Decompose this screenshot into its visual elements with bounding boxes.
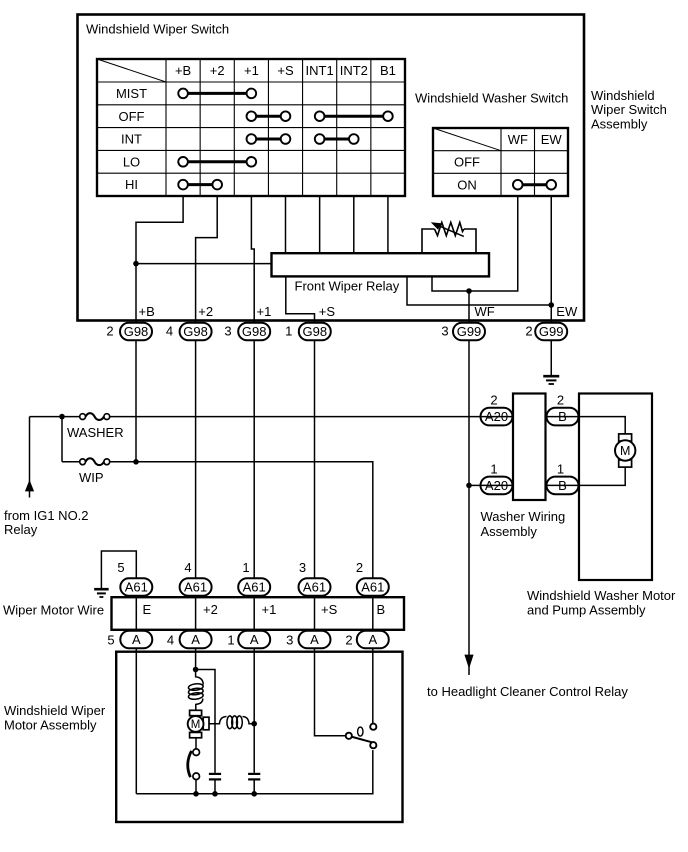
svg-text:1: 1 <box>557 461 564 476</box>
svg-text:Windshield Washer Switch: Windshield Washer Switch <box>415 91 568 106</box>
svg-text:G98: G98 <box>242 324 267 339</box>
wiper motor wire terminal names <box>143 602 386 617</box>
svg-text:1: 1 <box>242 560 249 575</box>
WASHER fuse <box>80 414 86 420</box>
connector A pin5 <box>120 631 152 649</box>
wire +2 branch to capacitor <box>196 670 215 794</box>
svg-text:+2: +2 <box>210 63 225 78</box>
HI contact +B to +2 <box>183 183 217 186</box>
windshield wiper switch contact table <box>97 59 405 196</box>
svg-text:3: 3 <box>441 324 448 339</box>
svg-text:G98: G98 <box>303 324 328 339</box>
svg-text:4: 4 <box>167 633 174 648</box>
ON contact WF to EW <box>518 183 552 186</box>
svg-text:A61: A61 <box>125 580 148 595</box>
svg-text:G98: G98 <box>124 324 149 339</box>
svg-text:to Headlight Cleaner Control R: to Headlight Cleaner Control Relay <box>427 684 628 699</box>
svg-text:+2: +2 <box>203 602 218 617</box>
rail junction 1 <box>193 791 199 797</box>
capacitor C2 <box>248 774 260 780</box>
connector A61 pin5 <box>120 578 152 596</box>
rail junction 3 <box>251 791 257 797</box>
svg-text:from IG1 NO.2: from IG1 NO.2 <box>4 508 89 523</box>
capacitor C1 <box>209 774 221 780</box>
svg-text:A61: A61 <box>303 580 326 595</box>
wire WF from washer switch to relay <box>432 196 518 291</box>
svg-text:Motor Assembly: Motor Assembly <box>4 717 97 732</box>
wiper motor armature coil (vertical inductor) <box>188 670 203 711</box>
svg-text:A20: A20 <box>485 478 508 493</box>
junction washer/wip feed <box>59 414 65 420</box>
label: Windshield Washer Motor and Pump Assembly <box>527 588 676 617</box>
svg-text:HI: HI <box>125 177 138 192</box>
svg-text:3: 3 <box>224 324 231 339</box>
INT contact INT1 to INT2 <box>320 138 354 141</box>
svg-text:1: 1 <box>490 461 497 476</box>
svg-text:G99: G99 <box>457 324 482 339</box>
pin numbers G98/G99 row <box>106 324 532 339</box>
svg-text:+1: +1 <box>262 602 277 617</box>
label: Windshield Wiper Switch Assembly <box>591 88 667 132</box>
MIST contact +B to +1 <box>183 92 251 95</box>
svg-text:Wiper Motor Wire: Wiper Motor Wire <box>3 603 104 618</box>
svg-text:A20: A20 <box>485 409 508 424</box>
motor ground rail <box>136 750 372 794</box>
svg-text:INT: INT <box>121 132 142 147</box>
LO contact +B to +1 <box>183 160 251 163</box>
connector A pin1 <box>238 631 270 649</box>
wiper park switch <box>346 724 377 749</box>
windshield washer switch contact table <box>433 128 568 196</box>
connector G98 pin1 <box>299 323 331 341</box>
WASHER fuse feed wire <box>30 416 484 418</box>
connector A61 pin4 <box>180 578 212 596</box>
connector A pin2 <box>357 631 389 649</box>
arrow to headlight cleaner control relay <box>464 655 473 669</box>
svg-text:3: 3 <box>299 560 306 575</box>
svg-text:G98: G98 <box>183 324 208 339</box>
rail junction 2 <box>212 791 218 797</box>
connector A20 pin1 <box>481 477 513 495</box>
svg-text:M: M <box>620 444 630 458</box>
svg-text:A: A <box>132 632 141 647</box>
windshield wiper switch assembly box <box>78 15 585 321</box>
junction coil/+1 <box>251 721 257 727</box>
wire +2 column down to wiper motor <box>196 196 218 670</box>
wire B pin2 of washer motor <box>579 417 626 434</box>
svg-text:3: 3 <box>286 633 293 648</box>
svg-text:+S: +S <box>277 63 294 78</box>
svg-text:WF: WF <box>508 132 528 147</box>
washer wiring assembly connector block <box>513 394 546 501</box>
wire B1 into relay <box>387 196 389 253</box>
connector A61 pin1 <box>238 578 270 596</box>
svg-text:1: 1 <box>285 324 292 339</box>
svg-text:OFF: OFF <box>454 155 480 170</box>
link wire washer row to wip row <box>61 417 63 462</box>
svg-text:LO: LO <box>123 154 140 169</box>
svg-text:B: B <box>377 602 386 617</box>
pin numbers A row <box>107 633 352 648</box>
wire to A20 pin1 <box>469 484 483 486</box>
svg-text:WASHER: WASHER <box>67 425 124 440</box>
wire +B to relay left <box>136 263 272 265</box>
svg-text:EW: EW <box>541 132 563 147</box>
svg-text:+B: +B <box>139 304 155 319</box>
ground at wiper motor E pin <box>94 588 109 591</box>
svg-text:5: 5 <box>117 560 124 575</box>
pin numbers A20/B ovals <box>490 392 564 476</box>
OFF contact +1 to +S <box>251 115 285 118</box>
connector A20 pin2 <box>481 408 513 426</box>
svg-text:ON: ON <box>457 177 477 192</box>
svg-text:Windshield Washer Motor: Windshield Washer Motor <box>527 588 676 603</box>
svg-text:2: 2 <box>356 560 363 575</box>
windshield washer motor and pump assembly box <box>579 394 652 581</box>
svg-text:B1: B1 <box>380 63 396 78</box>
svg-text:Wiper Switch: Wiper Switch <box>591 102 667 117</box>
svg-text:Windshield: Windshield <box>591 88 655 103</box>
svg-text:2: 2 <box>106 324 113 339</box>
front wiper relay box <box>272 253 490 276</box>
svg-text:INT1: INT1 <box>306 63 334 78</box>
junction EW <box>548 302 554 308</box>
wire B pin1 of washer motor <box>579 467 626 485</box>
connector A pin4 <box>180 631 212 649</box>
svg-text:+S: +S <box>319 304 336 319</box>
windshield wiper motor assembly box <box>116 652 402 822</box>
svg-text:A: A <box>250 632 259 647</box>
wire +S column into relay <box>285 196 287 253</box>
svg-text:A: A <box>310 632 319 647</box>
connector G99 pin3 <box>453 323 485 341</box>
svg-text:Washer Wiring: Washer Wiring <box>481 509 566 524</box>
wire INT2 into relay <box>353 196 355 253</box>
svg-text:2: 2 <box>525 324 532 339</box>
connector G99 pin2 <box>535 323 567 341</box>
svg-text:4: 4 <box>184 560 191 575</box>
feed from IG1 NO.2 relay with up arrow <box>29 417 31 498</box>
connector A61 pin2 <box>357 578 389 596</box>
ground below G99 pin2 <box>543 375 559 378</box>
pin numbers A61 row <box>117 560 363 575</box>
svg-text:and Pump Assembly: and Pump Assembly <box>527 602 646 617</box>
choke coil (horizontal inductor) <box>209 716 254 729</box>
svg-text:A61: A61 <box>361 580 384 595</box>
svg-text:MIST: MIST <box>116 86 147 101</box>
svg-text:+1: +1 <box>257 304 272 319</box>
OFF contact INT1 to B1 <box>320 115 388 118</box>
svg-text:E: E <box>143 602 152 617</box>
junction WIP/+B <box>133 459 139 465</box>
svg-text:Assembly: Assembly <box>481 524 538 539</box>
svg-text:A: A <box>191 632 200 647</box>
svg-text:INT2: INT2 <box>340 63 368 78</box>
junction WF <box>466 288 472 294</box>
svg-text:5: 5 <box>107 633 114 648</box>
svg-text:EW: EW <box>556 304 578 319</box>
variable resistor on front wiper relay <box>422 222 476 253</box>
svg-text:A61: A61 <box>243 580 266 595</box>
INT contact +1 to +S <box>251 138 285 141</box>
connector B pin1 <box>547 477 579 495</box>
wire EW from relay <box>407 276 551 305</box>
connector A pin3 <box>299 631 331 649</box>
connector G98 pin4 <box>180 323 212 341</box>
wire E pin with ground hook <box>101 551 136 794</box>
svg-text:B: B <box>558 478 567 493</box>
label: Washer Wiring Assembly <box>481 509 566 539</box>
wire EW column down to ground <box>550 196 552 376</box>
svg-text:2: 2 <box>557 392 564 407</box>
connector B pin2 <box>547 408 579 426</box>
svg-text:2: 2 <box>345 633 352 648</box>
wire +1 column down to capacitor <box>251 196 254 794</box>
svg-text:A: A <box>368 632 377 647</box>
svg-text:Windshield Wiper Switch: Windshield Wiper Switch <box>86 21 229 36</box>
svg-text:Assembly: Assembly <box>591 117 648 132</box>
svg-text:Front Wiper Relay: Front Wiper Relay <box>295 279 400 294</box>
svg-text:1: 1 <box>227 633 234 648</box>
WIP fuse <box>80 459 86 465</box>
thermal circuit breaker <box>188 738 200 794</box>
washer pump motor M <box>615 434 635 467</box>
pin name labels at assembly box bottom <box>139 304 578 319</box>
wiper motor M <box>188 710 209 738</box>
svg-text:2: 2 <box>490 392 497 407</box>
svg-text:+S: +S <box>321 602 338 617</box>
junction +B/relay <box>133 261 139 267</box>
wiper motor wire box <box>112 597 405 630</box>
junction +2 branch <box>193 667 199 673</box>
svg-text:Windshield Wiper: Windshield Wiper <box>4 703 106 718</box>
wire +S from relay down to park switch <box>286 276 346 735</box>
svg-text:WF: WF <box>475 304 495 319</box>
label: Windshield Wiper Motor Assembly <box>4 703 106 733</box>
WIP fuse row wire to B column <box>62 462 373 724</box>
svg-text:A61: A61 <box>184 580 207 595</box>
label: from IG1 NO.2 Relay <box>4 508 89 537</box>
svg-text:Relay: Relay <box>4 522 38 537</box>
wire +B column from switch table <box>136 196 183 462</box>
connector G98 pin3 <box>238 323 270 341</box>
svg-text:M: M <box>191 719 201 731</box>
wire INT1 into relay <box>319 196 321 253</box>
connector A61 pin3 <box>299 578 331 596</box>
wire WF pin down to headlight cleaner relay <box>468 291 470 675</box>
svg-text:+B: +B <box>175 63 191 78</box>
svg-text:+2: +2 <box>198 304 213 319</box>
connector G98 pin2 <box>120 323 152 341</box>
svg-text:G99: G99 <box>539 324 564 339</box>
svg-text:OFF: OFF <box>119 109 145 124</box>
svg-text:B: B <box>558 409 567 424</box>
svg-text:+1: +1 <box>244 63 259 78</box>
svg-text:WIP: WIP <box>79 470 104 485</box>
junction WF/A20 pin1 <box>466 483 472 489</box>
svg-text:4: 4 <box>166 324 173 339</box>
